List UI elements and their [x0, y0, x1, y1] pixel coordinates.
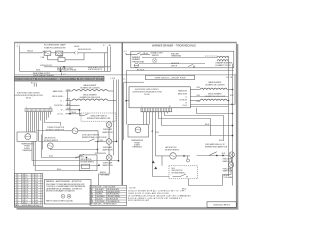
svg-text:OVEN LIGHT SWITCH: OVEN LIGHT SWITCH	[90, 115, 107, 117]
svg-text:OVEN CIRCUIT -- CIRCUIT FOUR: OVEN CIRCUIT -- CIRCUIT FOUR	[154, 78, 186, 80]
svg-text:W-36: W-36	[197, 101, 201, 103]
wire rail A	[113, 80, 115, 156]
marker triangle B	[154, 167, 157, 170]
svg-text:BROIL ELEM →: BROIL ELEM →	[52, 96, 65, 98]
junction jog A	[69, 113, 70, 114]
svg-text:L2 & N →: L2 & N →	[57, 113, 65, 115]
svg-text:BL-41: BL-41	[49, 155, 53, 157]
label BK/W-55 right	[224, 175, 233, 179]
svg-text:MOTEUR VERROU: MOTEUR VERROU	[81, 162, 94, 164]
wire convection right	[78, 131, 98, 142]
svg-text:W-36: W-36	[197, 95, 201, 97]
svg-text:8: 8	[32, 182, 33, 184]
svg-text:DOOR SW →: DOOR SW →	[54, 105, 65, 107]
svg-text:GN-34: GN-34	[74, 46, 79, 48]
svg-text:5.26: 5.26	[25, 197, 28, 199]
svg-text:MOTEUR VERROU: MOTEUR VERROU	[44, 140, 59, 142]
svg-text:0.75: 0.75	[35, 180, 38, 182]
right page title box	[146, 75, 195, 79]
thermostat TH1	[134, 63, 139, 67]
svg-text:OVEN CIRCUIT BLOCK DIAGRAM --: OVEN CIRCUIT BLOCK DIAGRAM -- DIAGRAMME …	[15, 77, 104, 81]
wire rail stub to eoc	[127, 100, 130, 102]
svg-text:THERMOSTAT: THERMOSTAT	[132, 60, 145, 63]
junction L2N rail	[232, 113, 233, 114]
wire link buses	[60, 67, 62, 72]
svg-text:W-36: W-36	[67, 90, 71, 92]
wire to lamp2	[95, 141, 107, 143]
svg-text:8: 8	[17, 187, 18, 189]
junction door row	[232, 104, 233, 105]
wire right drop W	[104, 53, 106, 72]
eoc U2 electronic oven control box	[129, 87, 190, 108]
svg-text:HIGH LIMIT: HIGH LIMIT	[171, 53, 179, 55]
wire inner low	[139, 63, 205, 65]
svg-text:8: 8	[32, 197, 33, 199]
wire from F3 down	[189, 179, 223, 186]
wire rail N right page	[234, 75, 236, 105]
wire rail L1 right page	[232, 75, 234, 186]
frame shadow	[17, 44, 239, 209]
label SIGNAL LIGHT TEMOIN	[151, 52, 164, 57]
switch S1 lamp switch	[41, 51, 46, 59]
svg-text:W-36: W-36	[230, 95, 234, 97]
svg-text:WARMER DRAWER -- TIROIR-RECHAU: WARMER DRAWER -- TIROIR-RECHAUD	[152, 45, 196, 48]
svg-text:14: 14	[22, 187, 24, 189]
page divider	[121, 43, 123, 186]
wire L1 drop	[19, 47, 21, 71]
switch S4 oven lamp	[209, 152, 217, 156]
svg-text:L 1 →: L 1 →	[185, 96, 189, 98]
heating element bake (left page)	[66, 90, 114, 91]
svg-text:1: 1	[26, 107, 27, 109]
svg-text:16: 16	[169, 106, 171, 108]
svg-text:W →: W →	[61, 109, 65, 111]
oven light switch F1 dashed box	[81, 113, 116, 121]
svg-text:1.25: 1.25	[25, 180, 28, 182]
latch motor M3	[170, 153, 176, 159]
convection motor M2	[72, 128, 78, 134]
label broil element right	[205, 93, 226, 98]
svg-text:RD-ROUGE-RED: RD-ROUGE-RED	[107, 194, 120, 196]
drawing frame	[14, 42, 236, 207]
svg-text:8: 8	[32, 192, 33, 194]
switch S3 door latch	[89, 139, 95, 142]
label W-36 rails mid	[151, 130, 159, 134]
svg-text:8: 8	[32, 190, 33, 192]
node L1 (fluorescent feed)	[17, 44, 21, 47]
temperature probe box right	[128, 125, 149, 138]
svg-text:L 1: L 1	[123, 78, 125, 80]
svg-text:NO-1: NO-1	[172, 168, 176, 170]
svg-text:18: 18	[22, 202, 24, 204]
svg-text:DOOR SW →: DOOR SW →	[180, 99, 189, 101]
svg-text:0.80: 0.80	[35, 190, 38, 192]
wire bottom bus N	[20, 70, 111, 72]
svg-text:TUBE FLUORESCENT: TUBE FLUORESCENT	[44, 47, 66, 49]
latch motor switch NO-3 box	[80, 155, 98, 171]
label relay board output left	[33, 72, 54, 77]
svg-text:0.75: 0.75	[35, 175, 38, 177]
svg-text:BAKE ELEM →: BAKE ELEM →	[53, 90, 65, 93]
svg-text:W-36: W-36	[197, 87, 201, 89]
svg-text:0.80: 0.80	[35, 202, 38, 204]
heating element bake (right page)	[190, 88, 232, 89]
wire L2N row	[66, 113, 82, 115]
wire second row	[48, 55, 59, 59]
svg-text:0.80: 0.80	[35, 185, 38, 187]
node L1 warmer	[124, 51, 128, 55]
wire lamp1 to lamp2	[230, 157, 232, 162]
junction 135 rail	[232, 135, 233, 136]
svg-text:SELECTOR: SELECTOR	[171, 63, 180, 65]
latch motor label	[44, 137, 59, 142]
svg-text:8: 8	[17, 182, 18, 184]
part number box	[207, 202, 236, 208]
svg-text:14: 14	[22, 185, 24, 187]
svg-text:ELEMENT DE CUISSON: ELEMENT DE CUISSON	[206, 85, 226, 87]
svg-text:4X BK-34 4X W-30: 4X BK-34 4X W-30	[40, 65, 52, 67]
wire L2 rail top	[232, 64, 234, 75]
svg-text:0.80: 0.80	[35, 197, 38, 199]
svg-text:8: 8	[32, 185, 33, 187]
junction bus1	[86, 157, 87, 158]
svg-text:8: 8	[32, 187, 33, 189]
eoc right label column	[178, 89, 189, 107]
wire plug right	[78, 52, 107, 54]
svg-text:1.25: 1.25	[25, 182, 28, 184]
wire starter right	[65, 53, 84, 60]
oven lamp DS4	[106, 155, 112, 161]
svg-text:MOTEUR VERROU: MOTEUR VERROU	[165, 150, 180, 152]
wire lamp2 drop left	[223, 168, 232, 186]
junction mid bus	[63, 66, 64, 67]
svg-text:TEMOIN: TEMOIN	[152, 55, 160, 57]
wire W row	[66, 110, 85, 116]
svg-text:BK-55: BK-55	[57, 169, 61, 171]
svg-text:PROBE: PROBE	[24, 146, 30, 148]
junction rail B	[116, 141, 117, 142]
junction left rail	[126, 100, 127, 101]
svg-text:L 2 N: L 2 N	[111, 78, 116, 80]
switch S6 on bus1	[75, 154, 84, 158]
svg-text:2.08: 2.08	[25, 185, 28, 187]
svg-text:SWITCH: SWITCH	[171, 65, 177, 67]
svg-text:5.26: 5.26	[25, 195, 28, 197]
svg-text:W →: W →	[185, 102, 188, 104]
wire lamp1 to lamp2	[108, 128, 110, 140]
svg-text:BK-55: BK-55	[219, 140, 223, 142]
svg-text:18: 18	[22, 177, 24, 179]
wire left rail R2	[126, 71, 128, 125]
label selector	[171, 63, 180, 67]
svg-text:0.80: 0.80	[35, 187, 38, 189]
wire L1 row right	[190, 96, 228, 98]
label bake element	[81, 84, 101, 90]
svg-text:OR-ORNGE: OR-ORNGE	[96, 201, 104, 203]
svg-text:WARNING -- AVERTISSEMENT -- AT: WARNING -- AVERTISSEMENT -- ATTENTION	[46, 180, 82, 183]
switch S2 warmer switch	[136, 53, 141, 56]
svg-text:16: 16	[22, 180, 24, 182]
svg-text:BROIL ELEM →: BROIL ELEM →	[178, 93, 189, 95]
junction latch wire	[97, 149, 98, 150]
svg-text:8: 8	[17, 180, 18, 182]
signal light DS1	[152, 58, 157, 63]
wire gauge table	[15, 173, 43, 206]
wire lamp2 right	[112, 141, 117, 143]
svg-text:BK/W-55: BK/W-55	[224, 175, 230, 177]
svg-text:W-36: W-36	[222, 153, 226, 155]
svg-text:ELECTRONIC OVEN CONTROL: ELECTRONIC OVEN CONTROL	[135, 89, 159, 91]
wire inner mid	[142, 57, 217, 59]
wire latch motor down	[50, 148, 97, 151]
label BK/W-55	[100, 172, 110, 176]
wire lamp switch row	[197, 155, 229, 157]
svg-text:0.75: 0.75	[35, 177, 38, 179]
latch motor label right	[165, 146, 180, 151]
svg-text:NON VERROUILLEE.: NON VERROUILLEE.	[128, 200, 150, 202]
section divider line	[15, 74, 237, 76]
svg-text:8: 8	[17, 185, 18, 187]
svg-text:ES 510: ES 510	[26, 98, 31, 100]
svg-text:BL: BL	[91, 199, 93, 201]
svg-text:3.31: 3.31	[25, 192, 28, 194]
svg-text:W-36: W-36	[100, 140, 104, 142]
svg-text:W-WHITE: W-WHITE	[96, 191, 103, 193]
svg-text:8: 8	[32, 177, 33, 179]
svg-text:8: 8	[32, 200, 33, 202]
junction bottom bus	[60, 71, 61, 72]
svg-text:8: 8	[17, 195, 18, 197]
junction bus rail C	[118, 160, 119, 161]
wire tube right	[63, 52, 75, 54]
svg-text:ES 510: ES 510	[144, 94, 149, 96]
wire element to rail	[227, 55, 229, 57]
svg-text:8: 8	[32, 202, 33, 204]
label temperature probe	[21, 142, 33, 152]
label wire tops	[103, 45, 111, 47]
temperature probe box	[17, 132, 37, 141]
svg-text:L 2 L 1 N: L 2 L 1 N	[226, 77, 232, 79]
wire right drop RD	[107, 47, 109, 72]
svg-text:BL-BLUE: BL-BLUE	[96, 199, 102, 201]
wire L2N jog down	[197, 108, 233, 114]
svg-text:BL-BLEU-BLUE: BL-BLEU-BLUE	[107, 199, 118, 201]
svg-text:3.31: 3.31	[25, 190, 28, 192]
junction door latch	[97, 141, 98, 142]
svg-text:ELEMENT TIROIR: ELEMENT TIROIR	[216, 65, 232, 67]
svg-text:THERMIQUE: THERMIQUE	[22, 150, 32, 152]
svg-text:8: 8	[17, 190, 18, 192]
note box UL	[44, 180, 91, 205]
label oven lamp 2	[102, 146, 113, 152]
svg-text:THERMIQUE: THERMIQUE	[132, 147, 142, 149]
svg-text:10: 10	[22, 197, 24, 199]
left page title bar	[15, 76, 104, 81]
svg-text:W-36: W-36	[156, 132, 160, 134]
svg-text:8: 8	[17, 197, 18, 199]
junction lamp switch 2	[222, 155, 223, 156]
wire lamp3 down	[99, 160, 110, 185]
junction broil rail	[228, 100, 229, 101]
svg-text:N L1 L2: N L1 L2	[31, 82, 37, 84]
label temperature probe right	[131, 139, 143, 149]
junction dot W row	[79, 109, 80, 110]
node arrows N L1 L2	[31, 82, 37, 86]
svg-text:16: 16	[50, 107, 52, 109]
latch motor M1	[47, 143, 53, 149]
svg-text:0.80: 0.80	[35, 195, 38, 197]
oven lamp DS5	[229, 152, 234, 157]
label W-36 gauges	[67, 90, 71, 110]
label oven lamp 1	[102, 128, 113, 134]
wire convection left	[65, 130, 73, 132]
svg-text:NO-3: NO-3	[81, 157, 85, 159]
wire lamp2 to lamp3	[108, 144, 110, 155]
wire mid bus	[44, 66, 111, 68]
svg-text:BAKE ELEMENT: BAKE ELEMENT	[209, 81, 222, 84]
svg-text:MOTEUR VERROU: MOTEUR VERROU	[172, 173, 185, 175]
svg-text:318047413 REV B: 318047413 REV B	[213, 205, 230, 207]
svg-text:COLOR CODE -- CODE COULEUR: COLOR CODE -- CODE COULEUR	[91, 187, 116, 189]
svg-text:SONDE: SONDE	[24, 148, 30, 150]
wire rail B	[116, 80, 118, 142]
connector J2 comb strip	[141, 106, 172, 112]
marker triangle A	[152, 161, 155, 164]
wire rail L2 right page	[228, 75, 230, 176]
gauge table cell text	[15, 175, 40, 207]
wire W row right	[190, 106, 228, 108]
svg-text:8: 8	[17, 175, 18, 177]
oven lamp DS6	[228, 162, 233, 167]
svg-text:GN: GN	[91, 196, 93, 198]
svg-text:ELEMENT DE CUISSON: ELEMENT DE CUISSON	[81, 87, 101, 89]
svg-text:1.0: 1.0	[25, 200, 27, 202]
label column bake/broil etc	[52, 90, 65, 115]
note text block	[128, 188, 191, 203]
wire door latch row	[39, 141, 89, 143]
label door latch switch	[82, 133, 107, 139]
label oven lamp right 2	[223, 167, 234, 172]
wire vertical jog B	[67, 91, 69, 106]
svg-text:BK/W-55: BK/W-55	[100, 172, 106, 174]
label relay board output right	[88, 66, 104, 71]
svg-text:8: 8	[17, 202, 18, 204]
label oven lamp switch right	[205, 143, 228, 148]
svg-text:0.80: 0.80	[35, 200, 38, 202]
switch S5 warmer limit	[188, 64, 195, 67]
svg-text:CONTROLE ELECTRONIQUE DU FOUR: CONTROLE ELECTRONIQUE DU FOUR	[14, 95, 44, 97]
svg-text:RD-RED: RD-RED	[96, 194, 103, 196]
ballast B1	[44, 51, 51, 55]
svg-text:L 1 →: L 1 →	[60, 101, 65, 103]
wire horizontal 135	[159, 135, 233, 137]
label bake element right	[206, 81, 226, 87]
warmer drawer enclosure box	[131, 51, 234, 68]
svg-text:8: 8	[17, 200, 18, 202]
svg-text:2.08: 2.08	[25, 187, 28, 189]
heating element broil (left page)	[66, 99, 117, 100]
oven lamp DS3	[106, 139, 112, 145]
wire right drop GN	[110, 47, 112, 72]
wire L1 row	[66, 105, 80, 107]
label oven lamp right 1	[223, 158, 234, 163]
wire BK-34 row	[162, 125, 233, 127]
connector J1 comb strip	[25, 107, 52, 112]
svg-text:10: 10	[22, 195, 24, 197]
wire rail C	[118, 80, 120, 161]
svg-text:1.0: 1.0	[25, 175, 27, 177]
label FLUORESCENT LAMP title	[44, 44, 66, 50]
svg-text:GN-GREEN: GN-GREEN	[96, 196, 104, 198]
svg-text:L2 & N →: L2 & N →	[182, 105, 189, 107]
svg-text:BK: BK	[91, 189, 93, 191]
svg-text:12: 12	[22, 190, 24, 192]
svg-text:SONDE: SONDE	[134, 145, 140, 147]
wire vertical jog A	[69, 100, 71, 113]
heating element broil (right page)	[190, 99, 228, 100]
svg-text:DISCONNECT POWER BEFORE SERVIC: DISCONNECT POWER BEFORE SERVICING UNIT.	[46, 184, 85, 186]
svg-text:8: 8	[32, 175, 33, 177]
svg-text:ELECTRONIC OVEN CONTROL: ELECTRONIC OVEN CONTROL	[17, 92, 40, 94]
fluorescent tube FL1	[56, 51, 63, 55]
label WARMER DRAWER THERMOSTAT	[132, 56, 145, 63]
junction BK34 rail	[232, 125, 233, 126]
svg-text:16: 16	[22, 182, 24, 184]
junction bus3	[98, 165, 99, 166]
oven lamp DS2	[106, 122, 112, 128]
svg-text:8: 8	[17, 177, 18, 179]
wire to NO3 box	[95, 152, 106, 154]
wire door sw row right	[190, 104, 235, 106]
svg-text:BAKE ELEMENT: BAKE ELEMENT	[84, 84, 97, 87]
wire under title	[124, 81, 144, 83]
svg-text:18: 18	[22, 175, 24, 177]
svg-text:UL: UL	[62, 196, 64, 198]
svg-text:FLUORESCENT LAMP: FLUORESCENT LAMP	[44, 44, 66, 47]
svg-text:RD-40: RD-40	[72, 112, 77, 114]
svg-text:CONVECTION MOTOR: CONVECTION MOTOR	[47, 127, 65, 129]
svg-text:8: 8	[32, 195, 33, 197]
svg-text:8: 8	[17, 192, 18, 194]
comb descenders right page	[144, 112, 224, 177]
wire L1 into box	[126, 54, 136, 56]
svg-text:12: 12	[22, 192, 24, 194]
junction lamp switch	[216, 155, 217, 156]
label high limit	[171, 53, 181, 57]
svg-text:PROBE: PROBE	[134, 142, 140, 144]
svg-text:BK-34: BK-34	[205, 124, 209, 126]
wire latch motor row right	[156, 155, 191, 162]
starter ST1	[58, 56, 65, 61]
svg-text:GN-34: GN-34	[58, 56, 63, 58]
wire mid link	[51, 52, 56, 54]
svg-text:1.0: 1.0	[25, 177, 27, 179]
svg-text:GN: GN	[109, 45, 111, 47]
svg-text:BK-64: BK-64	[28, 51, 33, 53]
wire lamp feed	[108, 120, 110, 123]
wire warmer bottom bus	[126, 70, 234, 72]
eoc U1 electronic oven control text	[14, 92, 44, 99]
svg-text:0.80: 0.80	[35, 182, 38, 184]
svg-text:0.80: 0.80	[35, 192, 38, 194]
svg-text:L 1: L 1	[63, 74, 66, 76]
convection motor label	[46, 127, 65, 131]
label oven lamp 3	[102, 161, 113, 167]
comb descender wires	[27, 112, 119, 171]
svg-text:8: 8	[32, 180, 33, 182]
svg-text:CONTROLE ELECTRONIQUE DU FOUR: CONTROLE ELECTRONIQUE DU FOUR	[132, 91, 162, 93]
wire L1 rail top	[228, 56, 230, 75]
